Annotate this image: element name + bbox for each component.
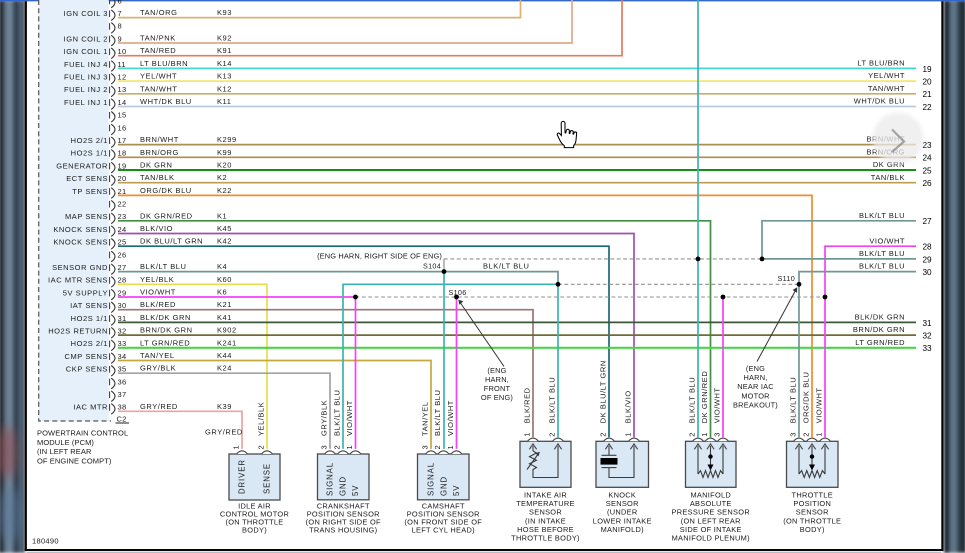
- node ref 25 DK GRN: [873, 160, 932, 175]
- PCM pin 33 HO2S 2/1: [71, 339, 127, 351]
- svg-text:24: 24: [118, 225, 127, 234]
- wire K20 DK GRN pin 19: [118, 161, 916, 171]
- svg-text:DK BLU/LT GRN: DK BLU/LT GRN: [599, 360, 608, 423]
- PCM pin 25 KNOCK SENS: [53, 238, 126, 250]
- svg-text:3: 3: [320, 445, 329, 449]
- svg-text:LEFT CYL HEAD): LEFT CYL HEAD): [412, 526, 475, 535]
- component camshaft position sensor: [404, 390, 482, 535]
- wire K4 BLK/LT BLU pin 27: [118, 262, 444, 272]
- arrow to S106: [458, 300, 504, 367]
- svg-text:9: 9: [118, 34, 122, 43]
- svg-text:K39: K39: [217, 402, 232, 411]
- svg-text:25: 25: [118, 238, 127, 247]
- svg-text:FUEL INJ 1: FUEL INJ 1: [64, 98, 108, 107]
- svg-text:25: 25: [923, 166, 933, 175]
- wire K45 BLK/VIO pin 24: [118, 224, 634, 437]
- node ref 22 WHT/DK BLU: [854, 97, 932, 112]
- svg-text:FUEL INJ 2: FUEL INJ 2: [64, 85, 108, 94]
- svg-text:K20: K20: [217, 161, 232, 170]
- arrow to S110: [757, 287, 797, 361]
- wire K22 ORG/DK BLU pin 21: [118, 186, 812, 437]
- svg-text:5V SUPPLY: 5V SUPPLY: [63, 288, 108, 297]
- svg-text:BLK/DK GRN: BLK/DK GRN: [140, 313, 191, 322]
- svg-text:WHT/DK BLU: WHT/DK BLU: [854, 97, 905, 106]
- svg-text:2: 2: [257, 445, 266, 449]
- svg-text:23: 23: [118, 212, 127, 221]
- svg-text:K44: K44: [217, 351, 232, 360]
- svg-text:BODY): BODY): [242, 526, 267, 535]
- PCM dashed border: [39, 0, 111, 421]
- svg-text:BLK/RED: BLK/RED: [523, 387, 532, 423]
- wire BLK/LT BLU ref30 riser S110 to TPS pin 3: [799, 272, 916, 438]
- svg-text:K14: K14: [217, 59, 232, 68]
- svg-text:31: 31: [923, 319, 933, 328]
- PCM pin 6: [110, 0, 122, 8]
- svg-text:BLK/RED: BLK/RED: [140, 300, 176, 309]
- svg-text:TAN/YEL: TAN/YEL: [421, 401, 430, 436]
- svg-text:34: 34: [118, 352, 127, 361]
- svg-text:29: 29: [923, 255, 933, 264]
- PCM pin 36: [110, 377, 127, 389]
- svg-text:GND: GND: [440, 476, 449, 496]
- PCM pin 27 SENSOR GND: [52, 263, 126, 275]
- wire K11 WHT/DK BLU pin 14: [118, 97, 916, 107]
- svg-text:HARN,: HARN,: [485, 375, 509, 384]
- svg-text:1: 1: [345, 445, 354, 449]
- PCM pin 16: [110, 123, 127, 135]
- svg-text:ECT SENS: ECT SENS: [66, 174, 108, 183]
- wire S104 splice tick: [443, 259, 445, 272]
- svg-text:LT GRN/RED: LT GRN/RED: [855, 338, 905, 347]
- wire K299 BRN/WHT pin 17: [118, 135, 916, 145]
- svg-text:2: 2: [433, 445, 442, 449]
- wire K91 TAN/RED pin 10: [118, 0, 622, 56]
- svg-text:3: 3: [713, 432, 722, 436]
- svg-text:MANIFOLD PLENUM): MANIFOLD PLENUM): [672, 534, 750, 543]
- node ref 21 TAN/WHT: [868, 84, 932, 99]
- mouse cursor hand: [557, 121, 576, 147]
- wire K41 BLK/DK GRN pin 31: [118, 313, 916, 323]
- svg-text:TAN/WHT: TAN/WHT: [868, 84, 905, 93]
- svg-text:7: 7: [118, 9, 122, 18]
- svg-text:1: 1: [624, 432, 633, 436]
- node ref 32 BRN/DK GRN: [853, 325, 932, 340]
- PCM pin 20 ECT SENS: [66, 174, 126, 186]
- component manifold absolute pressure sensor: [672, 371, 750, 543]
- svg-text:2: 2: [548, 432, 557, 436]
- svg-text:K6: K6: [217, 288, 227, 297]
- svg-text:K2: K2: [217, 173, 227, 182]
- PCM connector C2 label: [116, 414, 130, 423]
- PCM pin 29 5V SUPPLY: [63, 288, 127, 300]
- component intake air temperature sensor: [511, 377, 580, 543]
- PCM pin 30 IAT SENS: [70, 301, 126, 313]
- node ref 30 BLK/LT BLU: [859, 262, 932, 277]
- svg-text:TAN/YEL: TAN/YEL: [140, 351, 175, 360]
- svg-text:K93: K93: [217, 8, 232, 17]
- svg-text:2: 2: [599, 432, 608, 436]
- svg-text:LT GRN/RED: LT GRN/RED: [140, 338, 190, 347]
- svg-text:K299: K299: [217, 135, 237, 144]
- svg-text:LT BLU/BRN: LT BLU/BRN: [140, 59, 188, 68]
- wire K21 BLK/RED pin 30: [118, 300, 533, 437]
- svg-text:POWERTRAIN CONTROL: POWERTRAIN CONTROL: [37, 429, 128, 438]
- svg-text:KNOCK SENS: KNOCK SENS: [53, 238, 108, 247]
- svg-text:SIGNAL: SIGNAL: [326, 462, 335, 496]
- svg-text:K91: K91: [217, 46, 232, 55]
- svg-text:TP SENS: TP SENS: [72, 187, 108, 196]
- svg-text:BLK/DK GRN: BLK/DK GRN: [855, 313, 905, 322]
- svg-text:20: 20: [923, 78, 933, 87]
- svg-text:FUEL INJ 4: FUEL INJ 4: [64, 60, 108, 69]
- svg-text:WHT/DK BLU: WHT/DK BLU: [140, 97, 192, 106]
- svg-text:180490: 180490: [32, 537, 59, 546]
- wire K44 TAN/YEL pin 34: [118, 351, 431, 449]
- PCM pin 34 CMP SENS: [65, 352, 127, 364]
- svg-text:K12: K12: [217, 84, 232, 93]
- PCM pin 24 KNOCK SENS: [53, 225, 126, 237]
- svg-text:8: 8: [118, 22, 122, 31]
- svg-text:(IN LEFT REAR: (IN LEFT REAR: [37, 447, 92, 456]
- svg-text:SENSOR GND: SENSOR GND: [52, 263, 108, 272]
- svg-text:30: 30: [118, 301, 127, 310]
- svg-text:3: 3: [789, 432, 798, 436]
- wire K4 BLK/LT BLU S104 to IAT branch: [444, 272, 558, 285]
- svg-text:12: 12: [118, 73, 127, 82]
- svg-text:MODULE (PCM): MODULE (PCM): [37, 438, 94, 447]
- svg-text:32: 32: [118, 327, 127, 336]
- wire BLK/LT BLU ref29 solid: [762, 258, 916, 260]
- wire K42 DK BLU/LT GRN pin 25: [118, 237, 609, 438]
- svg-text:TAN/RED: TAN/RED: [140, 46, 176, 55]
- svg-text:VIO/WHT: VIO/WHT: [446, 400, 455, 436]
- PCM pin 38 IAC MTR: [73, 403, 126, 415]
- svg-text:DK GRN: DK GRN: [140, 161, 172, 170]
- wire K13 YEL/WHT pin 12: [118, 72, 916, 82]
- wire K1 DK GRN/RED pin 23: [118, 211, 711, 437]
- svg-text:THROTTLE BODY): THROTTLE BODY): [511, 534, 580, 543]
- svg-text:TAN/BLK: TAN/BLK: [871, 173, 905, 182]
- PCM caption: [37, 429, 128, 466]
- svg-text:27: 27: [118, 263, 127, 272]
- svg-text:HARN,: HARN,: [744, 373, 768, 382]
- svg-text:BRN/ORG: BRN/ORG: [140, 148, 179, 157]
- svg-text:31: 31: [118, 314, 127, 323]
- svg-text:2: 2: [688, 432, 697, 436]
- svg-text:11: 11: [118, 60, 126, 69]
- note ENG HARN FRONT OF ENG: [481, 366, 513, 402]
- svg-text:30: 30: [923, 268, 933, 277]
- svg-text:28: 28: [118, 276, 127, 285]
- junction 5V CKP: [353, 295, 358, 300]
- svg-text:2: 2: [802, 432, 811, 436]
- svg-text:MOTOR: MOTOR: [741, 391, 769, 400]
- svg-text:MANIFOLD): MANIFOLD): [601, 525, 644, 534]
- svg-text:DRIVER: DRIVER: [238, 459, 247, 494]
- svg-text:26: 26: [118, 250, 127, 259]
- svg-text:BREAKOUT): BREAKOUT): [733, 401, 778, 410]
- PCM pin 11 FUEL INJ 4: [64, 60, 126, 72]
- svg-text:FUEL INJ 3: FUEL INJ 3: [64, 73, 108, 82]
- svg-text:GND: GND: [339, 476, 348, 496]
- svg-text:2: 2: [333, 445, 342, 449]
- PCM pin 19 GENERATOR: [56, 161, 126, 173]
- svg-text:K22: K22: [217, 186, 232, 195]
- wire VIO/WHT TPS pin 1 riser and drop: [825, 246, 916, 437]
- svg-text:1: 1: [700, 432, 709, 436]
- PCM pin 12 FUEL INJ 3: [64, 73, 126, 85]
- svg-text:IAC MTR: IAC MTR: [73, 403, 108, 412]
- svg-text:1: 1: [523, 432, 532, 436]
- svg-text:6: 6: [118, 0, 122, 5]
- node ref 20 YEL/WHT: [868, 71, 932, 86]
- svg-text:S104: S104: [423, 262, 441, 271]
- node ref 33 LT GRN/RED: [855, 338, 932, 353]
- PCM pin 7 IGN COIL 3: [64, 9, 122, 21]
- PCM pin 26: [110, 250, 127, 262]
- powertrain control module PCM connector block: [39, 0, 109, 421]
- svg-text:BLK/LT BLU: BLK/LT BLU: [688, 377, 697, 424]
- svg-text:YEL/BLK: YEL/BLK: [257, 402, 266, 436]
- svg-text:BRN/DK GRN: BRN/DK GRN: [140, 326, 193, 335]
- PCM pin 32 HO2S RETURN: [48, 327, 126, 339]
- window chrome right edge: [944, 0, 965, 553]
- svg-text:TAN/PNK: TAN/PNK: [140, 34, 176, 43]
- wire BLK/LT BLU CKP pin 2 branch: [343, 284, 558, 449]
- svg-text:K45: K45: [217, 224, 232, 233]
- svg-text:16: 16: [118, 123, 127, 132]
- svg-text:BODY): BODY): [800, 525, 825, 534]
- node ref 28 VIO/WHT: [869, 236, 932, 251]
- wire K39 GRY/RED pin 38: [118, 402, 242, 449]
- svg-text:14: 14: [118, 98, 127, 107]
- node ref 23 BRN/WHT: [867, 135, 933, 150]
- svg-text:HO2S 2/1: HO2S 2/1: [71, 136, 108, 145]
- wire K12 TAN/WHT pin 13: [118, 84, 916, 94]
- svg-text:YEL/WHT: YEL/WHT: [868, 71, 905, 80]
- svg-text:37: 37: [118, 390, 127, 399]
- svg-text:BLK/VIO: BLK/VIO: [624, 390, 633, 423]
- svg-text:YEL/BLK: YEL/BLK: [140, 275, 174, 284]
- svg-text:BRN/WHT: BRN/WHT: [140, 135, 179, 144]
- svg-text:15: 15: [118, 111, 127, 120]
- wire K99 BRN/ORG pin 18: [118, 148, 916, 158]
- svg-text:NEAR IAC: NEAR IAC: [737, 382, 774, 391]
- svg-text:K24: K24: [217, 364, 232, 373]
- wire K241 LT GRN/RED pin 33: [118, 338, 916, 348]
- svg-text:(ENG: (ENG: [487, 366, 506, 375]
- wire K60 YEL/BLK pin 28: [118, 275, 267, 449]
- overlay nav circle: [870, 110, 927, 167]
- svg-text:S106: S106: [449, 288, 467, 297]
- svg-text:BLK/LT BLU: BLK/LT BLU: [859, 211, 905, 220]
- dashed harness line S110 ground: [558, 283, 799, 285]
- svg-text:DK GRN/RED: DK GRN/RED: [700, 371, 709, 424]
- svg-text:BLK/LT BLU: BLK/LT BLU: [859, 262, 905, 271]
- node ref 27 BLK/LT BLU: [859, 211, 932, 226]
- svg-text:32: 32: [923, 332, 933, 341]
- svg-text:K902: K902: [217, 326, 237, 335]
- dashed harness line S104 ground: [444, 258, 762, 260]
- PCM pin 10 IGN COIL 1: [64, 47, 127, 59]
- svg-text:13: 13: [118, 85, 127, 94]
- svg-text:S110: S110: [778, 274, 795, 283]
- svg-text:YEL/WHT: YEL/WHT: [140, 72, 177, 81]
- PCM pin 37: [110, 390, 127, 402]
- svg-text:BRN/DK GRN: BRN/DK GRN: [853, 325, 905, 334]
- svg-text:DK BLU/LT GRN: DK BLU/LT GRN: [140, 237, 203, 246]
- window top blue border: [0, 0, 965, 2]
- svg-text:38: 38: [118, 403, 127, 412]
- svg-text:K99: K99: [217, 148, 232, 157]
- svg-text:21: 21: [923, 90, 933, 99]
- svg-text:TAN/BLK: TAN/BLK: [140, 173, 175, 182]
- svg-text:5V: 5V: [351, 485, 360, 496]
- svg-text:1: 1: [446, 445, 455, 449]
- svg-text:20: 20: [118, 174, 127, 183]
- svg-text:18: 18: [118, 149, 127, 158]
- svg-text:K241: K241: [217, 338, 237, 347]
- svg-text:K92: K92: [217, 34, 232, 43]
- junction 5V TPS: [823, 295, 828, 300]
- svg-text:33: 33: [923, 344, 933, 353]
- component crankshaft position sensor: [306, 390, 381, 535]
- svg-text:36: 36: [118, 377, 127, 386]
- wire K2 TAN/BLK pin 20: [118, 173, 916, 183]
- svg-text:CKP SENS: CKP SENS: [66, 365, 108, 374]
- node ref 29 BLK/LT BLU: [859, 249, 932, 264]
- svg-text:TAN/WHT: TAN/WHT: [140, 84, 177, 93]
- svg-text:K21: K21: [217, 300, 232, 309]
- PCM pin 17 HO2S 2/1: [71, 136, 127, 148]
- node ref 31 BLK/DK GRN: [855, 313, 932, 328]
- wire VIO/WHT S106 drop to CMP pin 1: [456, 297, 458, 449]
- PCM pin 31 HO2S 1/1: [71, 314, 127, 326]
- svg-text:28: 28: [923, 243, 933, 252]
- svg-text:BLK/LT BLU: BLK/LT BLU: [333, 390, 342, 437]
- wire K93 TAN/ORG pin 7: [118, 0, 521, 18]
- svg-text:22: 22: [118, 200, 127, 209]
- svg-text:GRY/BLK: GRY/BLK: [320, 400, 329, 436]
- wire K24 GRY/BLK pin 35: [118, 364, 330, 449]
- svg-text:1: 1: [815, 432, 824, 436]
- svg-text:22: 22: [923, 103, 933, 112]
- node ref 26 TAN/BLK: [871, 173, 932, 188]
- PCM pin 13 FUEL INJ 2: [64, 85, 126, 97]
- svg-text:OF ENG): OF ENG): [481, 393, 513, 402]
- svg-text:VIO/WHT: VIO/WHT: [713, 387, 722, 423]
- svg-text:K4: K4: [217, 262, 227, 271]
- splice S106: [454, 295, 459, 300]
- PCM pin 8: [110, 22, 122, 34]
- wire K902 BRN/DK GRN pin 32: [118, 326, 916, 336]
- svg-text:K1: K1: [217, 211, 227, 220]
- wire VIO/WHT CKP pin 1 drop: [355, 297, 357, 449]
- svg-text:DK GRN/RED: DK GRN/RED: [140, 211, 193, 220]
- svg-text:19: 19: [923, 65, 933, 74]
- svg-text:K41: K41: [217, 313, 232, 322]
- svg-text:21: 21: [118, 187, 127, 196]
- wire K14 LT BLU/BRN pin 11: [118, 59, 916, 69]
- svg-text:(ENG HARN, RIGHT SIDE OF ENG): (ENG HARN, RIGHT SIDE OF ENG): [317, 251, 442, 260]
- svg-text:VIO/WHT: VIO/WHT: [345, 400, 354, 436]
- svg-text:HO2S RETURN: HO2S RETURN: [48, 327, 108, 336]
- wire K92 TAN/PNK pin 9: [118, 0, 572, 43]
- svg-text:GRY/BLK: GRY/BLK: [140, 364, 176, 373]
- svg-text:(ENG: (ENG: [746, 364, 765, 373]
- svg-text:VIO/WHT: VIO/WHT: [815, 387, 824, 423]
- splice S104: [442, 269, 447, 274]
- svg-text:IGN COIL 3: IGN COIL 3: [64, 9, 108, 18]
- svg-text:BLK/LT BLU: BLK/LT BLU: [859, 249, 905, 258]
- splice S110: [797, 282, 802, 287]
- svg-text:IAC MTR SENS: IAC MTR SENS: [48, 276, 108, 285]
- PCM pin 22: [110, 200, 127, 212]
- svg-text:GENERATOR: GENERATOR: [56, 161, 108, 170]
- svg-text:TRANS HOUSING): TRANS HOUSING): [309, 526, 377, 535]
- svg-text:26: 26: [923, 179, 933, 188]
- PCM pin 9 IGN COIL 2: [64, 34, 122, 46]
- component knock sensor: [593, 360, 652, 534]
- PCM pin 15: [110, 111, 127, 123]
- svg-text:CMP SENS: CMP SENS: [65, 352, 108, 361]
- svg-text:29: 29: [118, 288, 127, 297]
- svg-text:LT BLU/BRN: LT BLU/BRN: [857, 59, 905, 68]
- svg-text:17: 17: [118, 136, 127, 145]
- svg-text:IAT SENS: IAT SENS: [70, 301, 108, 310]
- wire BLK/LT BLU ref27 riser: [762, 221, 916, 259]
- PCM pin 28 IAC MTR SENS: [48, 276, 126, 288]
- svg-text:K60: K60: [217, 275, 232, 284]
- svg-text:BLK/LT BLU: BLK/LT BLU: [548, 377, 557, 424]
- svg-text:IGN COIL 1: IGN COIL 1: [64, 47, 108, 56]
- svg-text:ORG/DK BLU: ORG/DK BLU: [802, 372, 811, 424]
- wire BLK/LT BLU vertical to MAP pin 2: [697, 0, 699, 437]
- svg-text:FRONT: FRONT: [484, 384, 511, 393]
- svg-text:VIO/WHT: VIO/WHT: [869, 236, 905, 245]
- window chrome left edge: [0, 0, 25, 553]
- svg-text:10: 10: [118, 47, 127, 56]
- junction 5V MAP: [721, 295, 726, 300]
- svg-text:27: 27: [923, 217, 933, 226]
- wire BLK/LT BLU S104 down to CMP pin 2: [443, 272, 445, 449]
- svg-text:GRY/RED: GRY/RED: [140, 402, 178, 411]
- svg-text:SIGNAL: SIGNAL: [427, 462, 436, 496]
- svg-text:OF ENGINE COMPT): OF ENGINE COMPT): [37, 457, 112, 466]
- svg-text:HO2S 1/1: HO2S 1/1: [71, 149, 108, 158]
- dashed harness line 5V supply: [356, 296, 826, 298]
- svg-text:HO2S 2/1: HO2S 2/1: [71, 339, 108, 348]
- wire K6 VIO/WHT pin 29: [118, 288, 356, 298]
- PCM pin 14 FUEL INJ 1: [64, 98, 126, 110]
- svg-text:IGN COIL 2: IGN COIL 2: [64, 34, 108, 43]
- junction ground IAT: [556, 282, 561, 287]
- svg-text:GRY/RED: GRY/RED: [205, 428, 243, 437]
- PCM pin 21 TP SENS: [72, 187, 126, 199]
- node ref 19 LT BLU/BRN: [857, 59, 932, 74]
- svg-text:K13: K13: [217, 72, 232, 81]
- PCM pin 35 CKP SENS: [66, 365, 127, 377]
- svg-text:K11: K11: [217, 97, 231, 106]
- svg-text:BLK/LT BLU: BLK/LT BLU: [433, 390, 442, 437]
- PCM pin 18 HO2S 1/1: [71, 149, 127, 161]
- junction ground MAP vertical: [696, 257, 701, 262]
- component idle air control motor: [220, 402, 289, 535]
- svg-text:BLK/VIO: BLK/VIO: [140, 224, 173, 233]
- PCM pin 23 MAP SENS: [65, 212, 126, 224]
- node ref 24 BRN/ORG: [866, 147, 932, 162]
- svg-text:BLK/LT BLU: BLK/LT BLU: [483, 261, 530, 270]
